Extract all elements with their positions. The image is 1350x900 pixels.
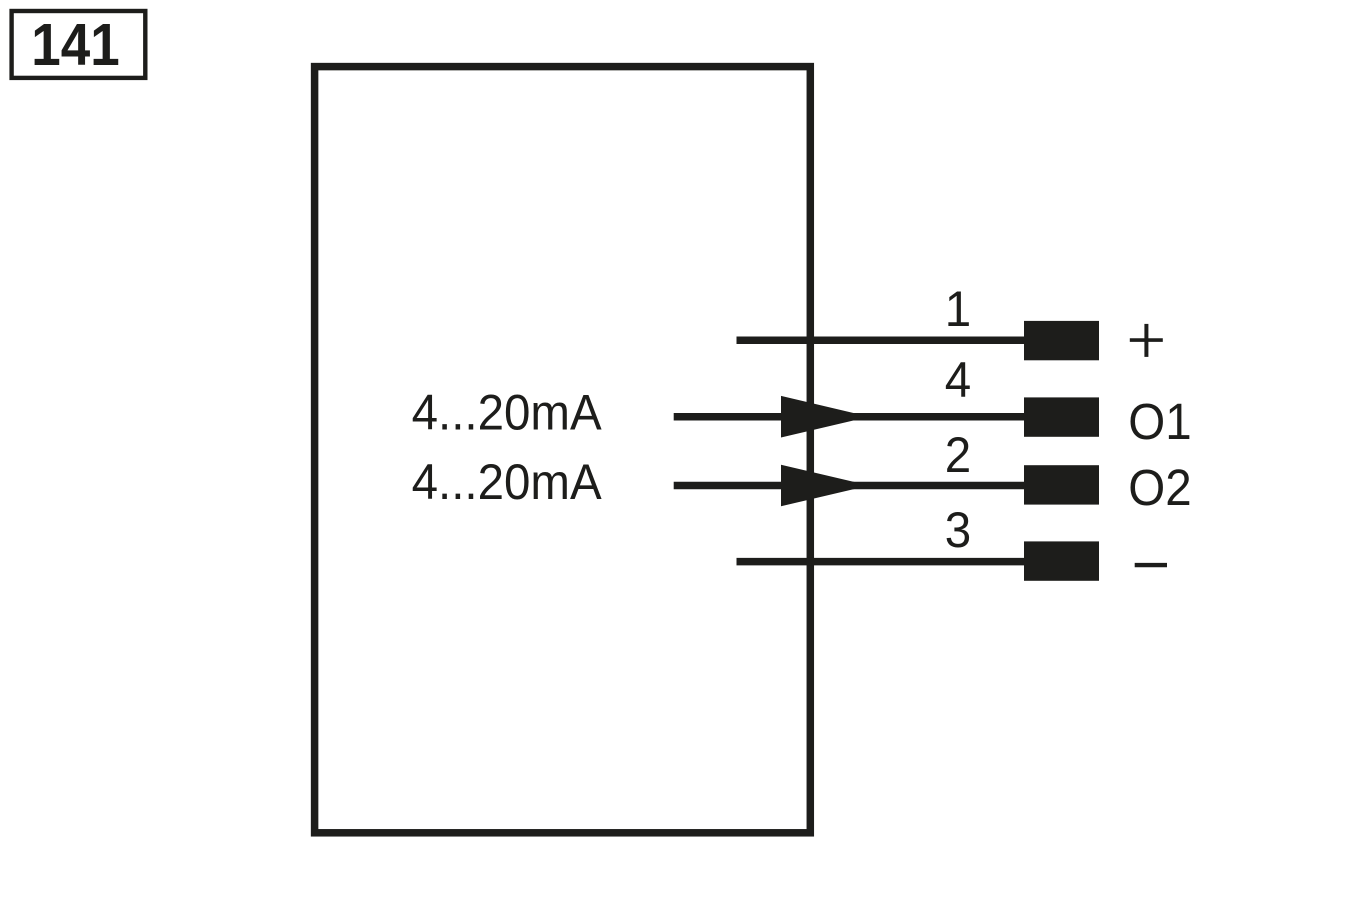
svg-text:O2: O2 [1128, 460, 1191, 517]
svg-text:2: 2 [945, 428, 971, 484]
svg-text:4...20mA: 4...20mA [412, 385, 603, 440]
svg-text:4: 4 [945, 353, 971, 409]
svg-text:O1: O1 [1128, 394, 1191, 451]
svg-text:4...20mA: 4...20mA [412, 455, 603, 510]
svg-text:1: 1 [945, 282, 971, 338]
svg-text:3: 3 [945, 503, 971, 559]
svg-text:141: 141 [31, 11, 119, 78]
